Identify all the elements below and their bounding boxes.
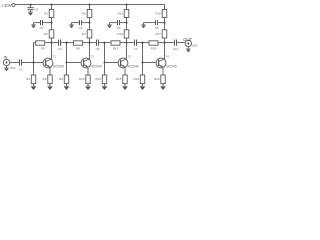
wire collector column stage 1 — [51, 38, 53, 59]
resistor R5 emitter — [48, 75, 52, 84]
junction base stage 4 — [142, 62, 144, 64]
junction base stage 1 — [33, 62, 35, 64]
resistor R7 collector load — [87, 30, 92, 38]
junction base top stage 4 — [142, 42, 144, 44]
wire collector to coupling cap stage 4 — [165, 42, 175, 44]
wire decoupling branch stage 3 — [110, 22, 118, 24]
resistor R16 supply filter upper — [162, 10, 167, 18]
svg-text:BC549: BC549 — [128, 64, 138, 68]
wire emitter stage 4 — [162, 67, 164, 75]
resistor R15 emitter — [123, 75, 127, 84]
svg-text:R15: R15 — [116, 77, 122, 81]
capacitor C8 decoupling — [155, 20, 157, 25]
wire coupling cap onward stage 3 — [137, 42, 143, 44]
resistor R17 collector load — [162, 30, 167, 38]
svg-text:C6: C6 — [117, 26, 121, 30]
wire collector column stage 2 — [89, 38, 91, 59]
node decoupling stage 3 — [126, 22, 128, 24]
junction rail stage 2 — [89, 4, 91, 6]
ground for C9 — [30, 10, 32, 12]
resistor R8 feedback — [74, 41, 83, 45]
ground decoupling stage 3 — [109, 23, 111, 25]
capacitor C10 coupling — [174, 40, 176, 46]
ground base bias stage 4 — [142, 84, 144, 87]
node decoupling stage 4 — [164, 22, 166, 24]
svg-text:T4: T4 — [166, 55, 170, 59]
transistor T4 BC549 — [156, 55, 177, 69]
wire collector to coupling cap stage 3 — [127, 42, 135, 44]
node collector stage 3 — [126, 42, 128, 44]
resistor R19 base bias — [140, 75, 144, 84]
svg-text:R10: R10 — [79, 77, 85, 81]
capacitor C4 decoupling — [79, 20, 81, 25]
resistor R10 emitter — [86, 75, 90, 84]
ground base bias stage 2 — [66, 84, 68, 87]
ground base bias stage 1 — [33, 84, 35, 87]
svg-text:R4: R4 — [26, 77, 30, 81]
capacitor C7 coupling — [134, 40, 136, 46]
capacitor C1 input coupling — [19, 59, 21, 65]
wire base bias column stage 2 — [66, 63, 68, 76]
svg-text:C8: C8 — [155, 26, 159, 30]
ground input terminal — [6, 66, 8, 68]
wire base stage 4 — [143, 62, 156, 64]
wire rail drop stage 3 — [126, 5, 128, 10]
wire decoupling branch stage 4 — [144, 22, 156, 24]
resistor R3 feedback — [36, 41, 45, 45]
wire emitter stage 2 — [87, 67, 89, 75]
svg-text:C10: C10 — [173, 47, 179, 51]
svg-text:C2: C2 — [40, 26, 44, 30]
svg-text:BC549: BC549 — [53, 64, 63, 68]
node collector stage 1 — [51, 42, 53, 44]
capacitor C3 coupling — [58, 40, 60, 46]
svg-text:R2: R2 — [44, 32, 48, 36]
svg-text:C3: C3 — [58, 47, 62, 51]
ground output terminal — [187, 47, 189, 49]
ground emitter stage 3 — [124, 84, 126, 87]
wire top supply rail — [15, 4, 165, 6]
capacitor C5 coupling — [96, 40, 98, 46]
svg-text:R8: R8 — [76, 46, 80, 50]
wire base bias column stage 4 — [142, 63, 144, 76]
resistor R4 base bias — [31, 75, 35, 84]
transistor T3 BC549 — [118, 55, 139, 69]
wire base stage 2 — [67, 62, 81, 64]
ground base bias stage 3 — [104, 84, 106, 87]
wire to decoupling node stage 3 — [126, 18, 128, 30]
transistor T2 BC549 — [81, 55, 102, 69]
wire base column stage 4 — [142, 43, 144, 63]
svg-text:R1: R1 — [44, 11, 48, 15]
junction rail stage 3 — [126, 4, 128, 6]
resistor R2 collector load — [49, 30, 54, 38]
svg-text:BNC: BNC — [193, 44, 198, 47]
resistor R18 feedback — [149, 41, 158, 45]
junction on rail for C9 — [30, 4, 32, 6]
ground decoupling stage 4 — [143, 23, 145, 25]
wire base column stage 2 — [66, 43, 68, 63]
svg-text:OUT: OUT — [183, 37, 192, 42]
wire collector to coupling cap stage 1 — [52, 42, 59, 44]
svg-text:R20: R20 — [154, 77, 160, 81]
wire collector column stage 3 — [126, 38, 128, 59]
wire to decoupling node stage 1 — [51, 18, 53, 30]
wire decoupling branch stage 2 — [72, 22, 80, 24]
wire rail drop stage 4 — [164, 5, 166, 10]
wire input — [10, 62, 20, 64]
ground emitter stage 4 — [162, 84, 164, 87]
wire input cap to base 1 — [22, 62, 34, 64]
wire base bias column stage 1 — [33, 63, 35, 76]
junction rail stage 1 — [51, 4, 53, 6]
wire base stage 3 — [105, 62, 118, 64]
svg-text:R6: R6 — [82, 11, 86, 15]
svg-text:R11: R11 — [118, 11, 124, 15]
svg-text:R12: R12 — [117, 32, 123, 36]
wire rail drop stage 2 — [89, 5, 91, 10]
svg-text:+10V: +10V — [2, 3, 12, 8]
corner supply rail right end — [164, 5, 166, 10]
wire base bias column stage 3 — [104, 63, 106, 76]
svg-text:T2: T2 — [91, 55, 95, 59]
svg-text:R7: R7 — [82, 32, 86, 36]
wire coupling cap onward stage 4 — [177, 42, 186, 44]
transistor T1 BC549 — [43, 55, 64, 69]
resistor R6 supply filter upper — [87, 10, 92, 18]
svg-text:BC549: BC549 — [91, 64, 101, 68]
capacitor C6 decoupling — [117, 20, 119, 25]
wire to decoupling node stage 4 — [164, 18, 166, 30]
wire collector column stage 4 — [164, 38, 166, 59]
svg-text:BC549: BC549 — [166, 64, 176, 68]
svg-text:C7: C7 — [134, 47, 138, 51]
wire base node to feedback stage 2 — [67, 42, 74, 44]
svg-text:R13: R13 — [113, 46, 119, 50]
svg-text:C5: C5 — [96, 47, 100, 51]
node collector stage 4 — [164, 42, 166, 44]
svg-text:R18: R18 — [151, 46, 157, 50]
ground decoupling stage 2 — [71, 23, 73, 25]
svg-text:C9: C9 — [34, 8, 38, 12]
junction base stage 3 — [104, 62, 106, 64]
svg-text:IN: IN — [4, 55, 8, 59]
wire base node to feedback stage 1 — [34, 42, 36, 44]
svg-text:R14: R14 — [95, 77, 101, 81]
junction base top stage 2 — [66, 42, 68, 44]
capacitor C2 decoupling — [40, 20, 42, 25]
capacitor C9 rail decoupling — [30, 5, 32, 8]
node decoupling stage 1 — [51, 22, 53, 24]
svg-text:BNC: BNC — [11, 67, 16, 70]
resistor R9 base bias — [64, 75, 68, 84]
resistor R20 emitter — [161, 75, 165, 84]
svg-text:R9: R9 — [59, 77, 63, 81]
wire base column stage 1 — [33, 43, 35, 63]
junction base top stage 3 — [104, 42, 106, 44]
svg-text:T3: T3 — [128, 55, 132, 59]
svg-text:C1: C1 — [19, 68, 23, 72]
svg-text:R3: R3 — [41, 46, 45, 50]
wire to decoupling node stage 2 — [89, 18, 91, 30]
wire emitter stage 3 — [124, 67, 126, 75]
wire emitter stage 1 — [49, 67, 51, 75]
junction base stage 2 — [66, 62, 68, 64]
svg-text:C4: C4 — [79, 26, 83, 30]
wire coupling cap onward stage 2 — [99, 42, 105, 44]
wire collector to coupling cap stage 2 — [90, 42, 97, 44]
ground emitter stage 1 — [49, 84, 51, 87]
svg-text:R5: R5 — [43, 77, 47, 81]
ground emitter stage 2 — [87, 84, 89, 87]
resistor R11 supply filter upper — [124, 10, 129, 18]
wire base node to feedback stage 4 — [143, 42, 150, 44]
wire base node to feedback stage 3 — [105, 42, 112, 44]
svg-text:R19: R19 — [133, 77, 139, 81]
wire rail drop stage 1 — [51, 5, 53, 10]
resistor R13 feedback — [111, 41, 120, 45]
ground decoupling stage 1 — [33, 23, 35, 25]
svg-text:R17: R17 — [155, 32, 161, 36]
resistor R14 base bias — [102, 75, 106, 84]
wire coupling cap onward stage 1 — [61, 42, 67, 44]
svg-text:T1: T1 — [53, 55, 57, 59]
svg-text:R16: R16 — [155, 11, 161, 15]
wire base column stage 3 — [104, 43, 106, 63]
node collector stage 2 — [89, 42, 91, 44]
node decoupling stage 2 — [89, 22, 91, 24]
wire decoupling branch stage 1 — [34, 22, 41, 24]
resistor R1 supply filter upper — [49, 10, 54, 18]
resistor R12 collector load — [124, 30, 129, 38]
wire base stage 1 — [34, 62, 43, 64]
